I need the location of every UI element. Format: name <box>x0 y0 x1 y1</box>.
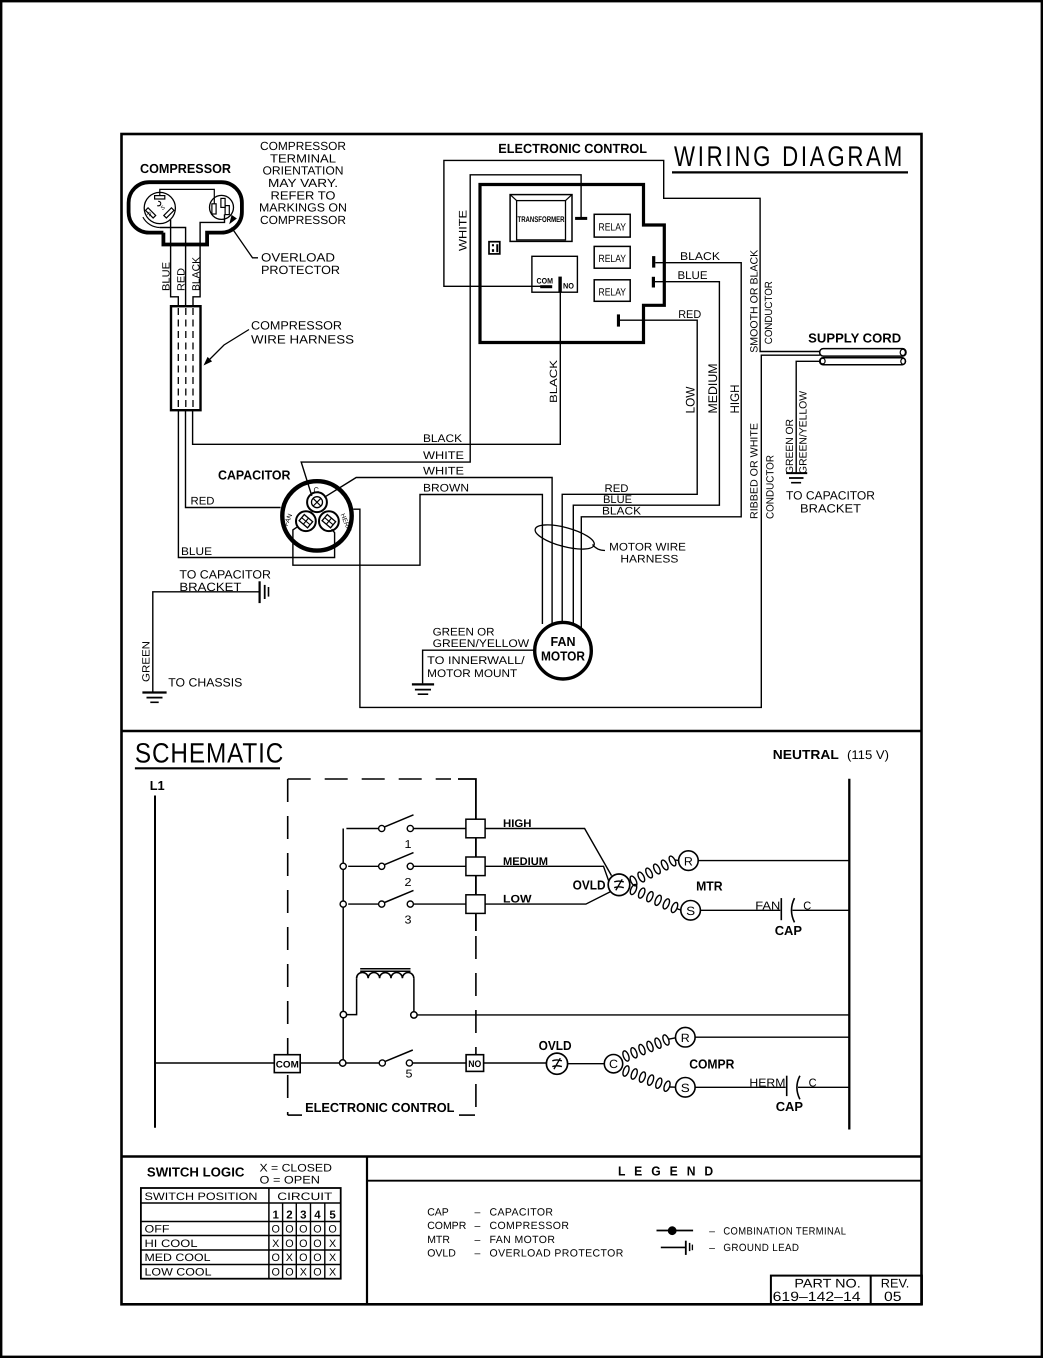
svg-text:3: 3 <box>300 1210 306 1222</box>
svg-text:O: O <box>271 1252 279 1264</box>
svg-text:2: 2 <box>405 877 412 889</box>
motor wire harness ellipse <box>533 520 597 554</box>
svg-text:MEDIUM: MEDIUM <box>706 364 720 414</box>
svg-text:R: R <box>681 1031 690 1045</box>
svg-text:–: – <box>475 1248 481 1260</box>
wire black harness to control NO <box>193 292 561 444</box>
overload protector compressor symbol <box>546 1053 567 1074</box>
svg-text:MOTOR: MOTOR <box>541 648 586 663</box>
svg-text:COMPRESSOR: COMPRESSOR <box>490 1220 570 1232</box>
wire L1 to COM <box>155 1062 274 1064</box>
compressor pin C <box>155 196 165 199</box>
transformer core <box>360 968 410 970</box>
transformer terminal bar <box>575 217 587 220</box>
COM box schematic <box>274 1055 300 1073</box>
svg-text:SCHEMATIC: SCHEMATIC <box>135 738 284 769</box>
wire L1 bus <box>154 796 156 1128</box>
svg-text:O: O <box>313 1252 321 1264</box>
svg-text:MOTOR MOUNT: MOTOR MOUNT <box>427 668 517 680</box>
svg-text:BLUE: BLUE <box>181 546 212 558</box>
wire ovld to C <box>568 1063 605 1065</box>
connector icon <box>489 242 500 254</box>
leader compressor wire harness <box>207 330 250 363</box>
svg-text:HIGH: HIGH <box>503 818 532 830</box>
svg-text:C: C <box>609 1057 618 1071</box>
svg-text:WHITE: WHITE <box>423 465 464 477</box>
svg-text:GREEN/YELLOW: GREEN/YELLOW <box>798 391 810 474</box>
switch S5 <box>346 1062 379 1064</box>
wire black overload to harness <box>193 214 225 307</box>
wire red harness to capacitor <box>186 410 281 507</box>
svg-text:(115 V): (115 V) <box>847 748 889 762</box>
svg-text:COMPRESSOR: COMPRESSOR <box>260 213 346 227</box>
wire compressor C to overload <box>160 189 215 203</box>
svg-text:X: X <box>329 1267 336 1279</box>
svg-text:O: O <box>271 1224 279 1236</box>
relay K2 <box>594 246 630 268</box>
supply cord upper <box>820 349 906 357</box>
svg-text:619–142–14: 619–142–14 <box>773 1289 862 1304</box>
legend combination terminal symbol <box>657 1230 694 1232</box>
wire high to ovld <box>485 829 611 876</box>
terminal blue bar <box>652 277 655 288</box>
svg-text:BLACK: BLACK <box>191 257 203 291</box>
wire low to ovld <box>485 892 610 904</box>
wire herm cap to neutral <box>798 1086 849 1088</box>
ground motor mount <box>412 683 434 685</box>
svg-text:OVLD: OVLD <box>573 878 606 893</box>
svg-text:COMPRESSOR: COMPRESSOR <box>251 319 342 333</box>
capacitor body <box>282 481 351 550</box>
transformer primary coil <box>357 972 414 978</box>
svg-text:TO CHASSIS: TO CHASSIS <box>168 676 242 690</box>
svg-text:X: X <box>329 1252 336 1264</box>
svg-text:SMOOTH OR BLACK: SMOOTH OR BLACK <box>749 250 761 353</box>
svg-text:–: – <box>709 1242 715 1254</box>
note compressor terminal orientation <box>259 139 347 227</box>
wire R to neutral <box>698 860 849 862</box>
compressor terminal circle <box>144 192 175 223</box>
switch S1 <box>346 828 378 830</box>
overload pin slots <box>212 204 216 214</box>
leader overload protector <box>232 228 259 258</box>
svg-text:OVERLOAD PROTECTOR: OVERLOAD PROTECTOR <box>490 1248 624 1260</box>
wire fan cap to neutral <box>793 909 850 911</box>
electronic control dashed box <box>288 778 451 780</box>
capacitor terminal HERM <box>319 511 339 531</box>
switch S2 <box>340 863 346 869</box>
wire S compressor to herm cap <box>695 1086 786 1088</box>
svg-text:C: C <box>314 485 320 494</box>
svg-text:HARNESS: HARNESS <box>620 554 678 566</box>
wire green fan motor to mount ground <box>423 650 535 683</box>
svg-text:SWITCH POSITION: SWITCH POSITION <box>145 1191 258 1203</box>
svg-text:O: O <box>313 1224 321 1236</box>
svg-text:LOW: LOW <box>503 894 532 906</box>
svg-text:R: R <box>684 854 693 868</box>
transformer <box>510 195 572 242</box>
wire black terminal to high <box>581 263 741 629</box>
svg-text:LOW COOL: LOW COOL <box>145 1267 212 1279</box>
wire red terminal to low <box>562 320 697 624</box>
svg-text:BLUE: BLUE <box>603 494 632 506</box>
svg-text:CAP: CAP <box>427 1206 449 1218</box>
svg-text:PROTECTOR: PROTECTOR <box>261 263 340 277</box>
svg-text:WIRING DIAGRAM: WIRING DIAGRAM <box>674 141 905 173</box>
svg-text:COMPR: COMPR <box>689 1056 735 1071</box>
svg-text:COM: COM <box>276 1059 299 1070</box>
svg-text:RED: RED <box>191 496 215 508</box>
svg-text:GREEN OR: GREEN OR <box>784 419 796 474</box>
svg-text:MOTOR WIRE: MOTOR WIRE <box>609 542 686 554</box>
legend items <box>427 1206 624 1259</box>
svg-text:HIGH: HIGH <box>728 385 742 414</box>
capacitor terminal C <box>307 492 327 512</box>
svg-text:FAN: FAN <box>283 513 294 528</box>
wire green to capacitor bracket <box>153 592 259 692</box>
svg-text:FAN: FAN <box>755 900 780 912</box>
compressor start winding coil <box>622 1065 631 1077</box>
svg-text:O: O <box>271 1267 279 1279</box>
svg-text:COM: COM <box>537 277 554 286</box>
wire brown fan motor to capacitor FAN <box>293 495 543 625</box>
part number box <box>771 1276 922 1304</box>
svg-text:5: 5 <box>329 1210 336 1222</box>
wire switch bus <box>342 829 344 1064</box>
motor run winding coil <box>629 875 639 887</box>
supply cord lower <box>820 358 906 365</box>
wire red compressor to harness <box>160 228 186 308</box>
svg-text:BLACK: BLACK <box>423 433 463 445</box>
svg-text:MTR: MTR <box>696 879 723 894</box>
wire NO to ovld compressor <box>484 1062 547 1064</box>
terminal COM bar <box>540 285 552 288</box>
compressor run winding coil <box>622 1050 631 1062</box>
svg-text:RED: RED <box>678 309 701 321</box>
terminal black bar <box>652 256 655 268</box>
svg-text:R: R <box>145 211 152 218</box>
svg-text:HI COOL: HI COOL <box>145 1238 198 1250</box>
svg-text:O: O <box>299 1238 307 1250</box>
wire blue terminal to medium <box>573 282 719 624</box>
wire smooth conductor enclosure to supply cord <box>444 160 820 351</box>
svg-text:SWITCH LOGIC: SWITCH LOGIC <box>147 1165 245 1180</box>
svg-text:MTR: MTR <box>427 1234 450 1246</box>
wire R compressor to neutral <box>695 1036 849 1038</box>
svg-text:TO CAPACITOR: TO CAPACITOR <box>786 488 875 502</box>
terminal R compressor <box>676 1027 696 1047</box>
svg-text:–: – <box>709 1226 715 1238</box>
svg-text:BLACK: BLACK <box>602 505 642 517</box>
svg-text:–: – <box>475 1206 481 1218</box>
svg-text:O: O <box>328 1224 336 1236</box>
terminal S fan <box>681 901 701 921</box>
svg-text:O: O <box>285 1267 293 1279</box>
svg-text:BLUE: BLUE <box>161 262 173 291</box>
svg-text:–: – <box>475 1220 481 1232</box>
wire neutral bus <box>848 779 850 1130</box>
svg-text:O = OPEN: O = OPEN <box>260 1175 321 1187</box>
junction circle COM bus <box>340 1060 346 1066</box>
switch S2 box <box>466 857 485 876</box>
wire COM to junction <box>300 1062 339 1064</box>
svg-text:CAP: CAP <box>776 1099 804 1114</box>
svg-text:O: O <box>285 1224 293 1236</box>
svg-text:X: X <box>329 1238 336 1250</box>
svg-text:05: 05 <box>884 1289 902 1304</box>
svg-text:2: 2 <box>286 1210 292 1222</box>
svg-text:RED: RED <box>176 268 188 291</box>
svg-text:O: O <box>313 1267 321 1279</box>
junction circle transformer left <box>340 1011 346 1017</box>
transformer left lead <box>347 978 357 1014</box>
svg-text:S: S <box>160 205 167 212</box>
drawing frame <box>122 134 922 1304</box>
wire transformer to neutral <box>417 1014 849 1016</box>
relay K1 <box>594 214 630 237</box>
terminal R fan <box>679 851 699 871</box>
transformer right lead <box>413 978 415 1012</box>
svg-text:BLUE: BLUE <box>678 270 708 282</box>
svg-text:GREEN/YELLOW: GREEN/YELLOW <box>433 638 530 650</box>
terminal NO bar <box>558 277 561 293</box>
svg-text:NEUTRAL: NEUTRAL <box>773 747 839 762</box>
ground lead capacitor bracket <box>259 581 261 603</box>
svg-text:CAP: CAP <box>775 923 803 938</box>
switch logic table <box>141 1188 341 1279</box>
wire S to fan cap <box>700 909 780 911</box>
svg-text:1: 1 <box>405 839 412 851</box>
svg-text:BLACK: BLACK <box>548 360 560 403</box>
legend ground lead symbol <box>661 1246 686 1248</box>
svg-text:SUPPLY CORD: SUPPLY CORD <box>808 331 901 346</box>
svg-text:MEDIUM: MEDIUM <box>503 856 548 868</box>
svg-text:O: O <box>299 1224 307 1236</box>
svg-text:O: O <box>299 1252 307 1264</box>
terminal S compressor <box>676 1078 696 1098</box>
frame divider schematic/tables <box>122 1155 922 1158</box>
svg-text:WHITE: WHITE <box>458 210 470 251</box>
fan motor <box>535 622 592 679</box>
wire green supply cord to ground <box>796 361 820 472</box>
svg-text:OVLD: OVLD <box>427 1248 456 1260</box>
svg-text:FAN MOTOR: FAN MOTOR <box>490 1234 556 1246</box>
relay K3 <box>594 280 630 302</box>
svg-text:X: X <box>272 1238 279 1250</box>
svg-text:COMPRESSOR: COMPRESSOR <box>140 161 232 176</box>
svg-text:GREEN OR: GREEN OR <box>433 626 495 638</box>
svg-text:X: X <box>300 1267 307 1279</box>
svg-text:L1: L1 <box>150 778 165 793</box>
wire white2 capacitor to fan motor <box>324 478 552 625</box>
electronic control board box <box>480 185 664 343</box>
svg-text:1: 1 <box>272 1210 279 1222</box>
compressor terminal cover arc <box>143 217 160 227</box>
capacitor terminal FAN <box>296 511 316 531</box>
svg-text:OVLD: OVLD <box>539 1038 572 1053</box>
svg-text:LOW: LOW <box>684 386 698 413</box>
svg-text:MED COOL: MED COOL <box>145 1252 211 1264</box>
svg-text:S: S <box>681 1081 690 1095</box>
frame divider switch-logic/legend <box>366 1157 368 1305</box>
wire medium to ovld <box>485 866 609 881</box>
svg-text:WIRE HARNESS: WIRE HARNESS <box>251 333 354 347</box>
svg-text:BLACK: BLACK <box>680 251 721 263</box>
svg-text:L E G E N D: L E G E N D <box>618 1164 716 1179</box>
svg-text:CAPACITOR: CAPACITOR <box>218 468 291 483</box>
svg-text:–: – <box>475 1234 481 1246</box>
wire capacitor shell to neutral conductor <box>353 355 820 707</box>
svg-text:RED: RED <box>605 483 629 495</box>
switch S3 <box>340 901 346 907</box>
svg-text:ELECTRONIC CONTROL: ELECTRONIC CONTROL <box>498 141 647 156</box>
wire white1 capacitor to control <box>301 175 581 496</box>
junction circle transformer right <box>411 1012 417 1018</box>
wire blue harness to capacitor HERM <box>178 410 334 557</box>
COM NO box <box>532 256 578 292</box>
svg-text:X: X <box>286 1252 293 1264</box>
svg-text:WHITE: WHITE <box>423 450 464 462</box>
compressor wire harness <box>171 306 201 410</box>
NO box schematic <box>466 1055 484 1072</box>
ground chassis <box>142 691 166 693</box>
svg-text:ELECTRONIC CONTROL: ELECTRONIC CONTROL <box>305 1100 454 1115</box>
svg-text:TO INNERWALL/: TO INNERWALL/ <box>427 655 526 667</box>
svg-text:HERM: HERM <box>749 1077 785 1089</box>
svg-text:S: S <box>686 904 695 918</box>
svg-text:CONDUCTOR: CONDUCTOR <box>765 455 777 519</box>
svg-text:RELAY: RELAY <box>599 287 627 299</box>
compressor pin R <box>146 208 156 218</box>
svg-text:BROWN: BROWN <box>423 483 469 495</box>
svg-text:BRACKET: BRACKET <box>179 580 242 594</box>
svg-text:NO: NO <box>563 282 574 291</box>
svg-text:RELAY: RELAY <box>599 222 627 234</box>
svg-text:CIRCUIT: CIRCUIT <box>277 1191 332 1203</box>
overload protector fan symbol <box>608 874 630 896</box>
compressor outline <box>129 182 242 244</box>
svg-text:COMPR: COMPR <box>427 1220 467 1232</box>
compressor pin S <box>164 208 174 218</box>
svg-text:GREEN: GREEN <box>141 641 153 682</box>
svg-text:5: 5 <box>406 1069 413 1081</box>
switch S3 box <box>466 895 485 914</box>
svg-text:RELAY: RELAY <box>599 253 627 265</box>
svg-text:FAN: FAN <box>551 634 576 649</box>
frame divider wiring/schematic <box>122 730 922 733</box>
terminal red bar <box>617 314 620 326</box>
ground capacitor bracket right <box>786 472 807 474</box>
svg-text:COMBINATION TERMINAL: COMBINATION TERMINAL <box>723 1226 846 1238</box>
wire blue compressor to harness <box>171 220 179 307</box>
svg-text:4: 4 <box>314 1210 321 1222</box>
svg-text:GROUND LEAD: GROUND LEAD <box>723 1242 799 1254</box>
svg-text:O: O <box>285 1238 293 1250</box>
svg-text:NO: NO <box>468 1059 481 1070</box>
svg-text:CONDUCTOR: CONDUCTOR <box>763 281 775 344</box>
svg-text:O: O <box>313 1238 321 1250</box>
svg-text:RIBBED OR WHITE: RIBBED OR WHITE <box>749 423 761 519</box>
svg-text:TRANSFORMER: TRANSFORMER <box>518 215 565 224</box>
svg-text:CAPACITOR: CAPACITOR <box>490 1206 554 1218</box>
motor start winding coil <box>629 884 638 896</box>
svg-text:3: 3 <box>405 915 412 927</box>
svg-text:X = CLOSED: X = CLOSED <box>260 1163 332 1175</box>
svg-text:OFF: OFF <box>145 1224 170 1236</box>
overload protector circle <box>210 195 234 219</box>
svg-text:BRACKET: BRACKET <box>800 501 862 515</box>
switch S1 box <box>466 819 485 838</box>
terminal C compressor <box>604 1055 622 1073</box>
